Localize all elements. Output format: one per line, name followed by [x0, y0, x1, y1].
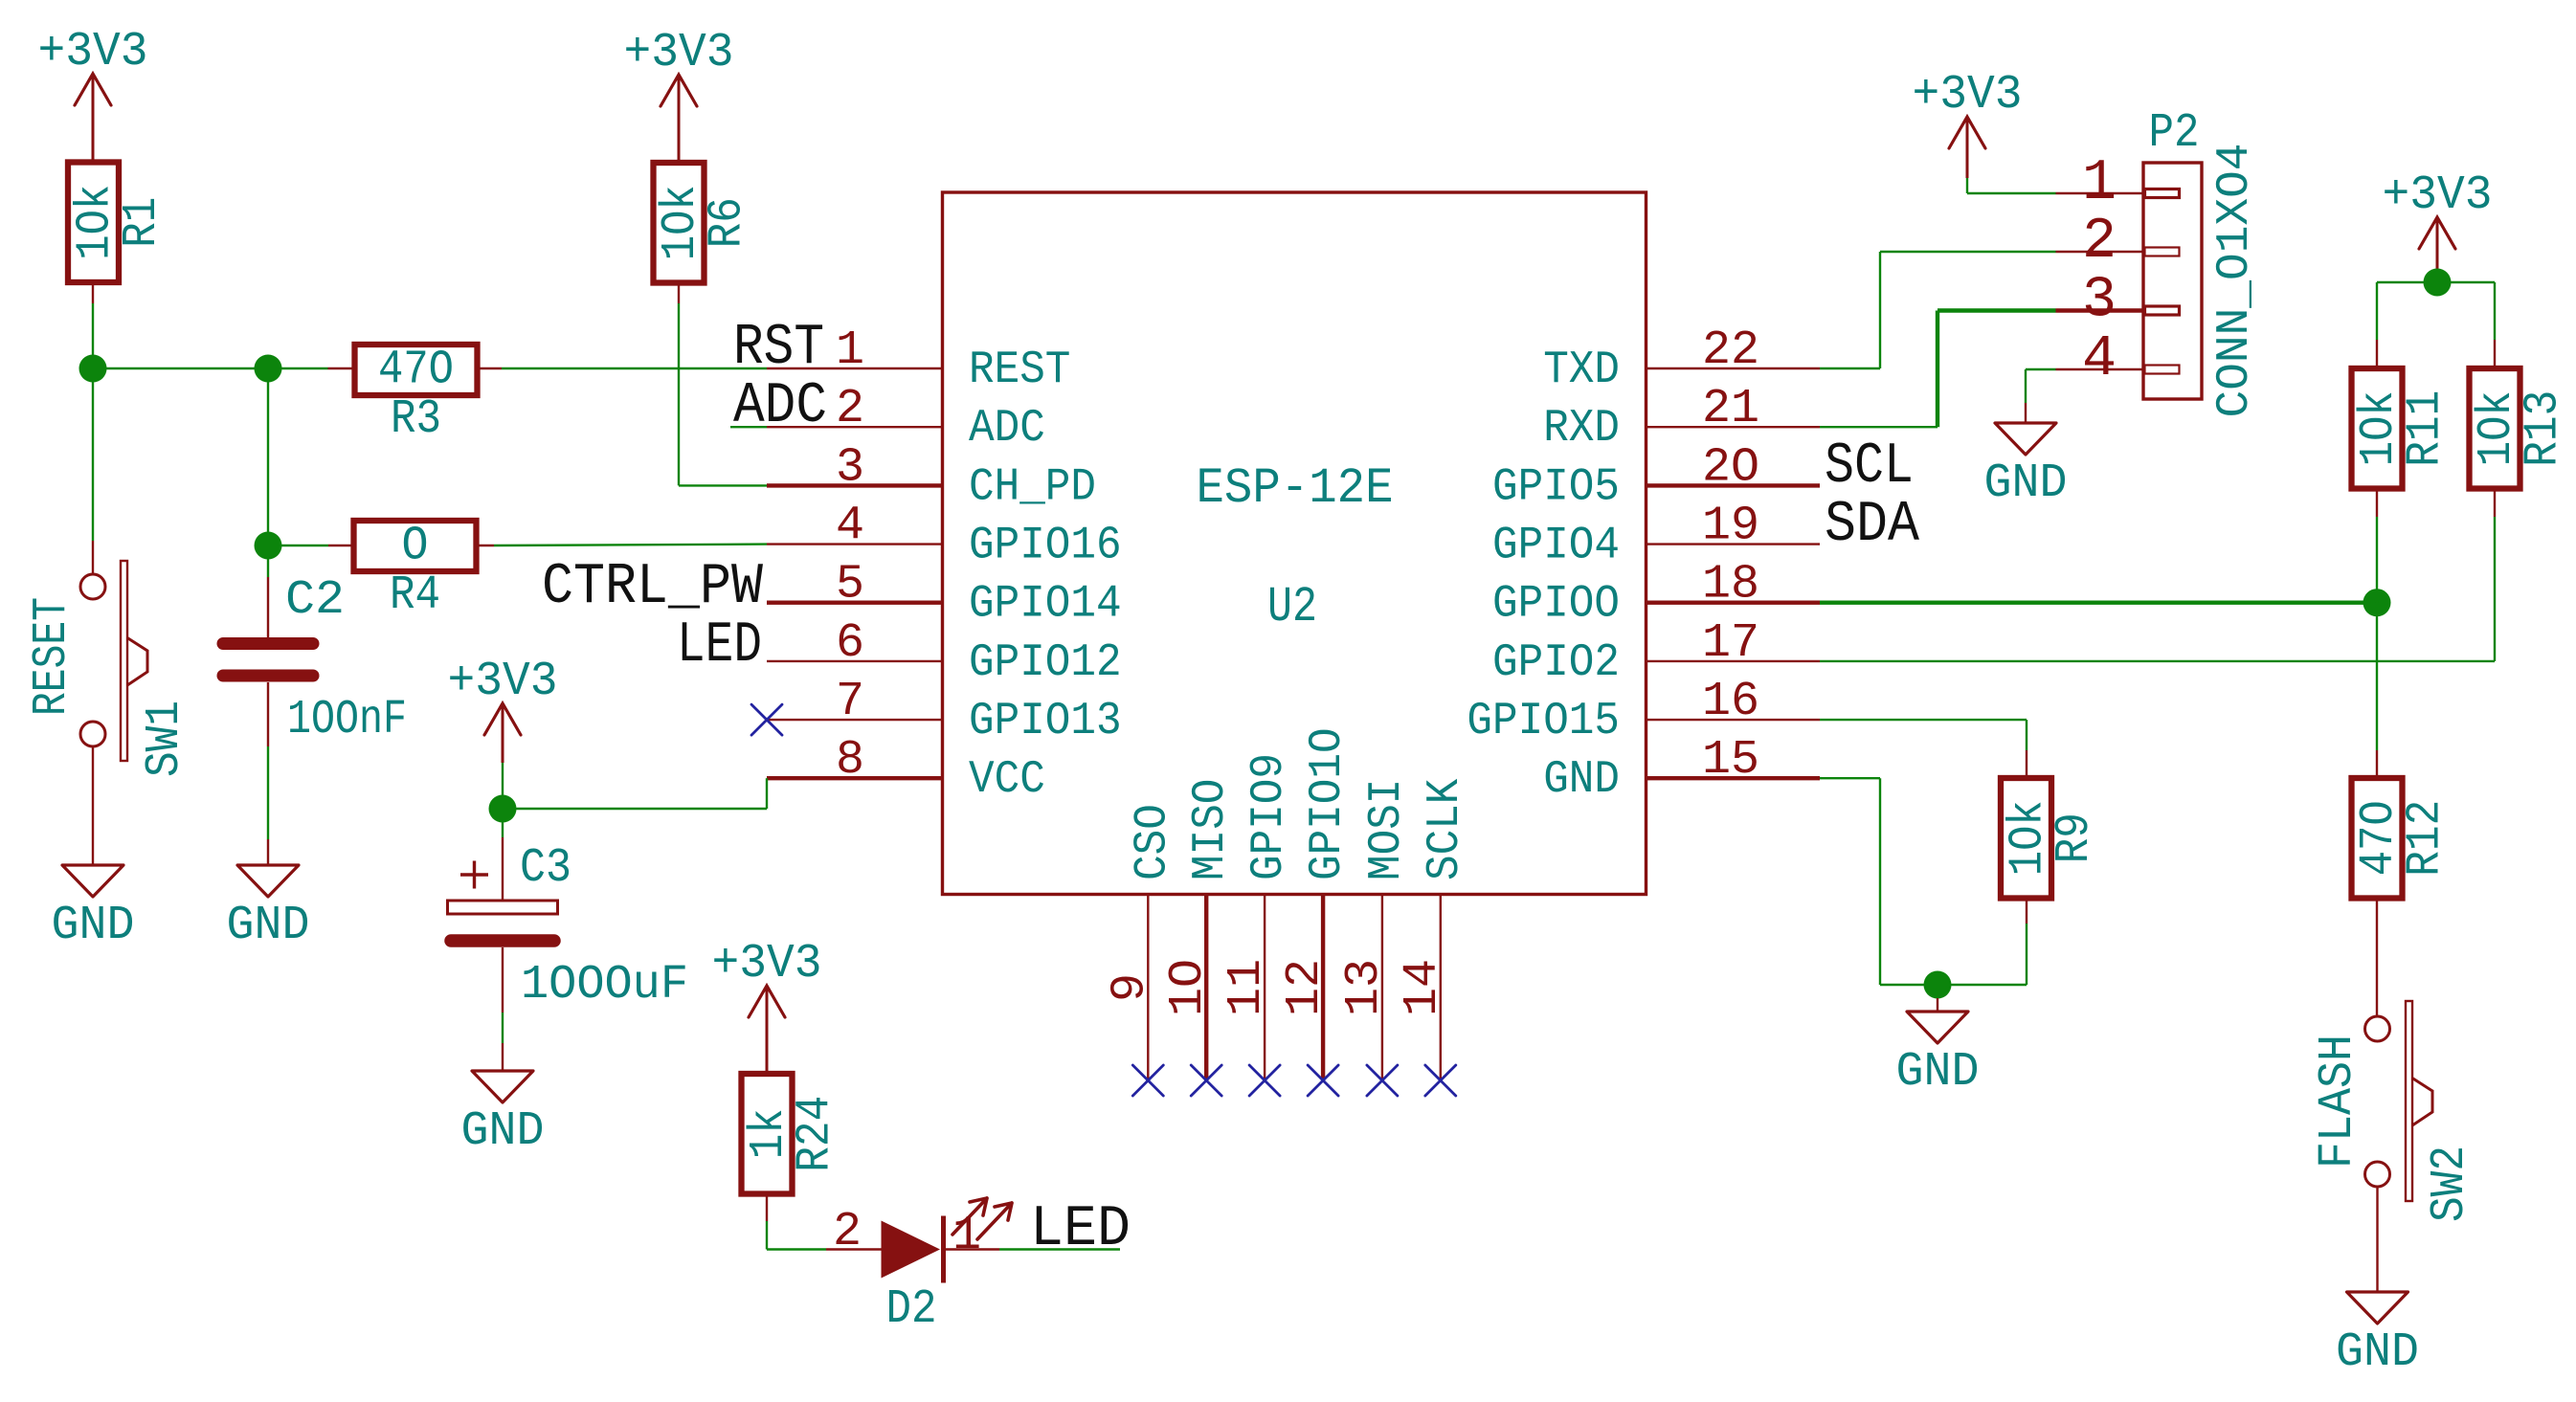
IC pin 20 GPIO5	[1492, 440, 1820, 513]
wire GPIO0 pin18 long	[1820, 601, 2377, 605]
svg-text:16: 16	[1702, 675, 1759, 729]
svg-text:REST: REST	[969, 345, 1070, 396]
svg-text:R13: R13	[2517, 390, 2571, 467]
IC pin 21 RXD	[1543, 382, 1820, 455]
svg-text:GPIO14: GPIO14	[969, 579, 1122, 631]
IC pin 12 GPIO10	[1278, 727, 1354, 1080]
wire GPIO15 down to R9	[2026, 720, 2027, 750]
svg-text:GND: GND	[2336, 1325, 2419, 1380]
svg-text:GPIOO: GPIOO	[1492, 579, 1620, 631]
net label FLASH	[2311, 1035, 2365, 1168]
svg-text:4: 4	[2082, 327, 2117, 392]
pin wire R24 bottom	[766, 1194, 768, 1222]
resistor R24	[742, 1074, 843, 1194]
svg-text:GPIO15: GPIO15	[1467, 696, 1620, 747]
IC pin 2 ADC	[767, 382, 1045, 455]
IC pin 11 GPIO9	[1220, 753, 1295, 1080]
svg-text:LED: LED	[677, 613, 762, 679]
svg-text:GPIO2: GPIO2	[1492, 637, 1620, 689]
svg-text:18: 18	[1702, 558, 1759, 612]
IC pin 17 GPIO2	[1492, 616, 1820, 689]
no-connect pin 11	[1249, 1065, 1280, 1096]
wire pin8 down	[766, 778, 768, 809]
IC pin 16 GPIO15	[1467, 675, 1820, 747]
pin wire P2 pin4	[2056, 368, 2144, 370]
wire R1 to junction	[92, 303, 94, 368]
junction A	[79, 355, 107, 383]
ground GND (C2)	[227, 839, 310, 953]
svg-text:17: 17	[1702, 616, 1759, 671]
junction E	[2363, 589, 2391, 616]
svg-text:4: 4	[836, 500, 864, 554]
svg-text:CONN_O1XO4: CONN_O1XO4	[2209, 144, 2261, 418]
svg-text:C3: C3	[520, 841, 571, 896]
svg-text:GPIO9: GPIO9	[1243, 753, 1295, 880]
switch SW1	[80, 561, 192, 777]
net label RESET	[25, 597, 79, 716]
pin wire R3 right	[478, 367, 503, 369]
no-connect pin 7 GPIO13	[751, 704, 782, 735]
svg-text:GPIO5: GPIO5	[1492, 461, 1620, 513]
svg-text:GPIO12: GPIO12	[969, 637, 1122, 689]
svg-text:MISO: MISO	[1185, 779, 1237, 880]
svg-text:R1: R1	[115, 197, 169, 248]
svg-text:R3: R3	[391, 392, 441, 447]
pin wire R6 bottom	[678, 283, 680, 303]
junction D	[489, 795, 517, 823]
pin wire R9 bottom	[2026, 899, 2027, 924]
pin wire R4 right	[477, 545, 495, 546]
svg-text:MOSI: MOSI	[1361, 779, 1413, 880]
svg-text:RXD: RXD	[1543, 403, 1620, 455]
ground GND (R9 / pin15)	[1896, 998, 1980, 1100]
svg-text:1O: 1O	[1161, 959, 1216, 1016]
svg-text:2O: 2O	[1702, 440, 1759, 495]
svg-text:GND: GND	[227, 899, 310, 953]
no-connect pin 9	[1132, 1065, 1163, 1096]
IC pin 14 SCLK	[1396, 778, 1471, 1080]
svg-text:R12: R12	[2399, 800, 2453, 877]
resistor R3	[355, 344, 478, 448]
wire GND corner down	[2025, 369, 2027, 403]
wire R3 to pin1	[502, 367, 767, 369]
wire R6 down	[678, 303, 680, 485]
IC pin 10 MISO	[1161, 779, 1237, 1080]
connector P2	[2082, 106, 2261, 418]
wire junction E to R12	[2376, 603, 2378, 750]
svg-text:9: 9	[1103, 973, 1157, 1002]
svg-text:1OOnF: 1OOnF	[287, 693, 407, 747]
svg-text:2: 2	[2082, 210, 2117, 275]
wire R11 to junction E	[2376, 517, 2378, 603]
pin wire P2 pin2	[2056, 251, 2144, 253]
pin wire SW1 top	[92, 541, 94, 573]
wire P2 pin4 to GND corner	[2026, 368, 2056, 370]
ground GND (C3)	[461, 1043, 545, 1159]
svg-text:GND: GND	[1984, 456, 2068, 511]
svg-text:O: O	[402, 520, 429, 574]
wire pin15 to junction G	[1880, 984, 1938, 986]
no-connect pin 12	[1308, 1065, 1338, 1096]
wire R9 down	[2026, 924, 2027, 985]
power +3V3 (R1 top)	[38, 25, 148, 163]
svg-text:13: 13	[1337, 959, 1392, 1016]
svg-text:RESET: RESET	[25, 597, 79, 716]
junction B	[255, 355, 282, 383]
wire R4 to pin4 GPIO16	[494, 545, 767, 545]
pin wire R12 top	[2376, 750, 2378, 778]
svg-text:47O: 47O	[378, 344, 454, 398]
pin wire R1 bottom	[92, 283, 94, 304]
svg-text:TXD: TXD	[1543, 345, 1620, 396]
wire RXD up	[1936, 311, 1939, 428]
svg-text:LED: LED	[1030, 1197, 1131, 1262]
pin wire SW2 bottom	[2376, 1188, 2378, 1266]
IC pin 4 GPIO16	[767, 500, 1122, 572]
wire C to C2	[267, 545, 269, 577]
svg-text:21: 21	[1702, 382, 1759, 436]
resistor R13	[2470, 368, 2571, 489]
svg-text:GPIO4: GPIO4	[1492, 521, 1620, 572]
svg-text:C2: C2	[285, 573, 345, 628]
pin wire R11 bottom	[2376, 489, 2378, 518]
resistor R6	[654, 163, 755, 283]
svg-text:3: 3	[2082, 269, 2117, 334]
svg-text:7: 7	[836, 675, 864, 729]
resistor R12	[2352, 778, 2453, 899]
svg-text:5: 5	[836, 558, 864, 612]
wire B to R3	[268, 367, 328, 369]
wire R9 to junction G	[1938, 984, 2027, 986]
svg-text:R9: R9	[2048, 812, 2102, 863]
svg-text:SCL: SCL	[1825, 434, 1914, 500]
no-connect pin 10	[1191, 1065, 1221, 1096]
svg-text:15: 15	[1702, 733, 1759, 788]
pin wire R9 top	[2026, 750, 2027, 778]
net label RST	[733, 316, 824, 381]
wire R6 to pin3 CH_PD	[679, 484, 767, 486]
wire C2 to GND	[267, 746, 269, 839]
wire TXD up	[1879, 252, 1881, 368]
no-connect pin 14	[1425, 1065, 1456, 1096]
IC pin 9 CS0	[1103, 804, 1178, 1080]
wire 3V3 rail left	[2377, 281, 2437, 283]
pin wire R13 top	[2494, 340, 2496, 368]
IC pin 3 CH_PD	[767, 440, 1096, 513]
IC reference U2	[1267, 579, 1317, 635]
wire pin8 to C3 junction	[503, 808, 767, 810]
pin wire R3 left	[328, 367, 355, 369]
wire D2 to LED label	[999, 1248, 1120, 1250]
wire +3V3 to P2 pin1	[1967, 192, 2056, 194]
svg-text:R4: R4	[390, 568, 440, 623]
svg-text:CH_PD: CH_PD	[969, 461, 1096, 513]
pin wire R13 bottom	[2494, 489, 2496, 518]
net label SDA	[1825, 493, 1919, 558]
net label CTRL_PW	[542, 555, 763, 620]
svg-text:GND: GND	[1896, 1045, 1980, 1100]
svg-text:R24: R24	[789, 1096, 843, 1172]
pin wire R4 left	[328, 545, 354, 546]
svg-text:U2: U2	[1267, 579, 1317, 635]
svg-text:3: 3	[836, 440, 864, 495]
junction G	[1924, 971, 1952, 999]
power +3V3 (R6 top)	[624, 26, 734, 163]
pin wire R11 top	[2376, 340, 2378, 368]
IC pin 6 GPIO12	[767, 616, 1122, 689]
wire ADC stub	[730, 426, 767, 428]
wire R24 to D2	[767, 1248, 826, 1250]
power +3V3 (C3 top)	[448, 655, 558, 809]
wire A to B	[93, 367, 268, 369]
wire RXD to P2 pin3	[1938, 308, 2056, 312]
wire pin15 down	[1879, 778, 1881, 985]
power +3V3 (R24 top)	[712, 937, 822, 1074]
svg-text:14: 14	[1396, 959, 1450, 1016]
wire B down to C	[267, 368, 269, 545]
pin wire P2 pin1	[2056, 192, 2144, 194]
svg-text:1OOOuF: 1OOOuF	[521, 958, 688, 1013]
ground GND (SW2)	[2336, 1266, 2419, 1380]
svg-text:1: 1	[836, 323, 864, 378]
junction C	[255, 532, 282, 560]
wire TXD to P2 pin2	[1880, 251, 2056, 253]
svg-text:GPIO1O: GPIO1O	[1302, 727, 1354, 880]
svg-text:RST: RST	[733, 316, 824, 381]
svg-text:P2: P2	[2149, 106, 2200, 161]
IC pin 15 GND	[1543, 733, 1820, 806]
svg-text:SW1: SW1	[138, 701, 192, 777]
wire GND pin15	[1820, 777, 1880, 779]
wire TXD pin22	[1820, 367, 1880, 369]
net label LED (pin6)	[677, 613, 762, 679]
svg-text:12: 12	[1278, 959, 1333, 1016]
IC pin 19 GPIO4	[1492, 500, 1820, 572]
capacitor C3	[448, 809, 689, 1013]
svg-text:22: 22	[1702, 323, 1759, 378]
svg-text:19: 19	[1702, 500, 1759, 554]
svg-text:R11: R11	[2399, 390, 2453, 467]
pin wire R12 bottom to SW2	[2376, 899, 2378, 1016]
svg-text:CTRL_PW: CTRL_PW	[542, 555, 763, 620]
no-connect pin 13	[1367, 1065, 1398, 1096]
wire rail to R13	[2494, 282, 2496, 340]
pin wire SW1 bottom	[92, 747, 94, 839]
IC U2 ESP-12E body	[943, 192, 1646, 895]
IC name ESP-12E	[1197, 460, 1394, 517]
wire junction A to SW1	[92, 368, 94, 541]
switch SW2	[2365, 1001, 2478, 1222]
svg-text:GND: GND	[461, 1104, 545, 1159]
svg-text:ADC: ADC	[733, 374, 827, 439]
svg-text:SW2: SW2	[2423, 1146, 2477, 1222]
wire C3 to GND	[502, 1013, 504, 1043]
svg-text:SCLK: SCLK	[1420, 778, 1471, 880]
svg-text:6: 6	[836, 616, 864, 671]
wire 3V3 rail right	[2437, 281, 2495, 283]
svg-text:11: 11	[1220, 959, 1274, 1016]
svg-text:GPIO13: GPIO13	[969, 696, 1122, 747]
svg-text:SDA: SDA	[1825, 493, 1919, 558]
svg-text:2: 2	[836, 382, 864, 436]
svg-text:GPIO16: GPIO16	[969, 521, 1122, 572]
wire C to R4	[268, 545, 328, 546]
power +3V3 (P2 top)	[1913, 68, 2023, 193]
wire R24 down	[766, 1221, 768, 1250]
net label LED (D2)	[1030, 1197, 1131, 1262]
ground GND (P2 pin4)	[1984, 403, 2068, 511]
wire RXD pin21	[1820, 426, 1938, 428]
LED D2	[826, 1198, 1012, 1337]
svg-text:GND: GND	[1543, 754, 1620, 806]
resistor R4	[354, 520, 477, 624]
IC pin 7 GPIO13	[767, 675, 1122, 747]
svg-text:CSO: CSO	[1127, 804, 1178, 880]
wire GPIO15 pin16	[1820, 719, 2027, 721]
svg-text:R6: R6	[701, 197, 755, 248]
capacitor C2	[223, 573, 407, 747]
net label ADC	[733, 374, 827, 439]
svg-text:ADC: ADC	[969, 403, 1045, 455]
svg-text:1: 1	[2082, 151, 2117, 216]
svg-text:D2: D2	[886, 1282, 937, 1337]
junction F	[2424, 269, 2452, 297]
svg-text:VCC: VCC	[969, 754, 1045, 806]
svg-text:8: 8	[836, 733, 864, 788]
svg-text:GND: GND	[52, 899, 135, 953]
power +3V3 (R11 R13 top)	[2383, 168, 2493, 282]
svg-text:2: 2	[833, 1205, 862, 1259]
svg-text:FLASH: FLASH	[2311, 1035, 2365, 1168]
wire GPIO2 pin17 long	[1820, 660, 2495, 662]
resistor R9	[2001, 778, 2102, 899]
IC pin 22 TXD	[1543, 323, 1820, 396]
resistor R11	[2352, 368, 2453, 489]
IC pin 5 GPIO14	[767, 558, 1122, 631]
svg-text:ESP-12E: ESP-12E	[1197, 460, 1394, 517]
IC pin 1 REST	[767, 323, 1070, 396]
net label SCL	[1825, 434, 1914, 500]
wire R13 down to GPIO2	[2494, 517, 2496, 661]
IC pin 13 MOSI	[1337, 779, 1413, 1080]
IC pin 18 GPIO0	[1492, 558, 1820, 631]
IC pin 8 VCC	[767, 733, 1045, 806]
pin wire P2 pin3	[2056, 308, 2144, 312]
wire rail to R11	[2376, 282, 2378, 340]
resistor R1	[68, 163, 169, 283]
ground GND (SW1)	[52, 839, 135, 953]
